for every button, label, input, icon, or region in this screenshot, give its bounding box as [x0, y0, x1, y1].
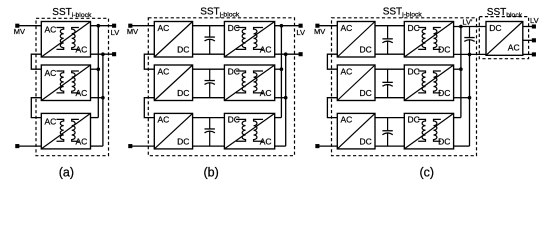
AC/DC rectifier b3 [154, 113, 192, 148]
svg-text:DC: DC [360, 88, 372, 98]
dashed boundary SST block (c inverter) [479, 17, 528, 59]
AC/DC rectifier c3 [337, 113, 375, 148]
terminal MV- (c) [315, 144, 319, 148]
wire b2 top output [275, 68, 282, 70]
bus LV+ vertical (b) [280, 26, 282, 118]
AC/AC converter a3 [41, 113, 90, 148]
wire c3 rectifier to dc-link top [375, 117, 404, 119]
capacitor dc-link c1 [382, 26, 392, 55]
svg-text:AC: AC [158, 23, 170, 33]
wire inverter phase 1 [523, 26, 534, 28]
label SST i-block (a) [52, 7, 92, 19]
svg-text:MV: MV [314, 27, 325, 36]
isolated DC/DC converter c1 [404, 22, 453, 58]
terminal MV+ (c) [315, 24, 319, 28]
terminal LV+ (a) [112, 24, 116, 28]
wire c3 rectifier to dc-link bottom [375, 145, 404, 147]
wire c2 bottom output [454, 97, 470, 99]
svg-text:AC: AC [341, 66, 353, 76]
transformer inside AC/AC converter a2 [57, 71, 79, 93]
svg-text:AC: AC [45, 24, 57, 34]
capacitor dc-link b3 [205, 118, 215, 147]
isolated DC/AC converter b2 [224, 65, 274, 101]
svg-text:MV: MV [127, 27, 138, 36]
transformer inside isolated DC/AC converter b3 [236, 119, 263, 141]
junction a2 bottom [101, 96, 105, 100]
isolated DC/AC converter b3 [224, 113, 274, 148]
terminal LV+ (b) [299, 24, 303, 28]
transformer inside isolated DC/DC converter c2 [418, 71, 441, 93]
wire b2 rectifier to dc-link bottom [193, 97, 225, 99]
wire MV- to c3 output [317, 145, 337, 147]
svg-text:DC: DC [408, 115, 420, 125]
AC/DC rectifier b1 [154, 22, 192, 58]
wire a1 bottom output to LV- [91, 53, 115, 55]
junction c2 top [459, 67, 463, 71]
terminal MV+ (b) [128, 24, 132, 28]
terminal LV phase 2 (c) [532, 38, 536, 42]
svg-text:SSTj-block: SSTj-block [200, 7, 240, 19]
bus LV+ vertical (a) [97, 26, 99, 118]
svg-text:(a): (a) [59, 165, 74, 179]
label MV (a) [14, 27, 25, 36]
wire inverter phase 2 [523, 39, 534, 41]
junction b2 top [280, 67, 284, 71]
svg-text:AC: AC [45, 116, 57, 126]
junction b1 bottom [284, 52, 288, 56]
terminal LV- (a) [112, 52, 116, 56]
label LV (c) [530, 16, 539, 25]
label LV (a) [111, 28, 120, 37]
svg-text:LV: LV [530, 16, 539, 25]
capacitor dc-link b2 [205, 69, 215, 98]
svg-text:DC: DC [177, 88, 189, 98]
wire series b2-b3 [144, 98, 154, 118]
capacitor LV' dc-link (c) [464, 27, 474, 55]
terminal MV- (a) [15, 144, 19, 148]
wire c1 rectifier to dc-link bottom [375, 53, 404, 55]
wire b1 bottom output to LV- [275, 53, 301, 55]
capacitor dc-link c2 [382, 69, 392, 98]
AC/DC rectifier b2 [154, 65, 192, 101]
terminal LV phase 3 (c) [532, 52, 536, 56]
wire series b1-b2 [144, 54, 154, 69]
AC/DC rectifier c1 [337, 22, 375, 58]
svg-text:DC: DC [360, 136, 372, 146]
wire a2 bottom output [91, 97, 103, 99]
svg-text:AC: AC [341, 115, 353, 125]
wire series c1-c2 [327, 54, 337, 69]
wire MV+ to a1 input [17, 25, 41, 27]
caption (b) [203, 165, 218, 179]
svg-text:DC: DC [408, 23, 420, 33]
isolated DC/DC converter c3 [404, 113, 453, 148]
junction b1 top [280, 24, 284, 28]
wire c1 bottom output to inverter [454, 53, 486, 55]
svg-text:AC: AC [158, 66, 170, 76]
bus LV' negative vertical (c) [469, 54, 471, 146]
svg-text:DC: DC [408, 66, 420, 76]
svg-text:DC: DC [489, 23, 501, 33]
wire inverter phase 3 [523, 53, 534, 55]
AC/DC rectifier c2 [337, 65, 375, 101]
wire MV+ to c1 input [317, 25, 337, 27]
isolated DC/DC converter c2 [404, 65, 453, 101]
wire c3 top output [454, 117, 461, 119]
junction a1 bottom [101, 52, 105, 56]
label MV (b) [127, 27, 138, 36]
terminal LV- (b) [299, 52, 303, 56]
label MV (c) [314, 27, 325, 36]
bus LV- vertical (a) [102, 54, 104, 146]
terminal MV- (b) [128, 144, 132, 148]
svg-text:SSTj-block: SSTj-block [383, 7, 423, 19]
wire series a2-a3 [31, 98, 41, 118]
label SST block (c inverter) [487, 7, 523, 19]
wire MV+ to b1 input [130, 25, 154, 27]
transformer inside isolated DC/DC converter c3 [418, 119, 441, 141]
junction c1 top [459, 25, 463, 29]
transformer inside isolated DC/AC converter b2 [236, 71, 263, 93]
bus LV' positive vertical (c) [460, 27, 462, 118]
dashed boundary SST i-block (a) [36, 18, 109, 155]
wire a1 top output to LV+ [91, 25, 115, 27]
transformer inside AC/AC converter a1 [57, 28, 79, 50]
svg-text:LV': LV' [462, 17, 473, 26]
svg-text:DC: DC [177, 136, 189, 146]
svg-text:MV: MV [14, 27, 25, 36]
svg-text:SSTblock: SSTblock [487, 7, 523, 19]
wire c2 rectifier to dc-link bottom [375, 97, 404, 99]
label SST j-block (b) [200, 7, 240, 19]
wire c2 rectifier to dc-link top [375, 68, 404, 70]
caption (a) [59, 165, 74, 179]
junction b2 bottom [284, 96, 288, 100]
wire b1 rectifier to dc-link bottom [193, 53, 225, 55]
wire b3 rectifier to dc-link bottom [193, 145, 225, 147]
svg-text:DC: DC [177, 44, 189, 54]
wire a3 top output [91, 117, 99, 119]
wire a3 bottom output [91, 145, 103, 147]
transformer inside AC/AC converter a3 [57, 119, 79, 141]
wire b1 top output to LV+ [275, 25, 301, 27]
wire b3 rectifier to dc-link top [193, 117, 225, 119]
svg-text:(b): (b) [203, 165, 218, 179]
svg-text:AC: AC [341, 23, 353, 33]
svg-text:LV: LV [296, 28, 305, 37]
svg-text:AC: AC [45, 68, 57, 78]
transformer inside isolated DC/DC converter c1 [418, 28, 441, 50]
junction a2 top [97, 67, 101, 71]
wire b3 top output [275, 117, 282, 119]
wire b2 rectifier to dc-link top [193, 68, 225, 70]
wire MV- to a3 output [17, 145, 41, 147]
wire a2 top output [91, 68, 99, 70]
dashed boundary SST j-block (c) [332, 18, 477, 156]
AC/AC converter a2 [41, 65, 90, 101]
junction c1 bottom [468, 53, 472, 57]
wire series a1-a2 [31, 54, 41, 69]
svg-text:DC: DC [360, 44, 372, 54]
wire series c2-c3 [327, 98, 337, 118]
wire b1 rectifier to dc-link top [193, 25, 225, 27]
label SST j-block (c) [383, 7, 423, 19]
caption (c) [420, 165, 435, 179]
dashed boundary SST j-block (b) [148, 18, 294, 156]
wire c2 top output [454, 68, 461, 70]
capacitor dc-link c3 [382, 118, 392, 147]
label LV (b) [296, 28, 305, 37]
wire c1 top output to inverter [454, 26, 486, 28]
isolated DC/AC converter b1 [224, 22, 274, 58]
capacitor dc-link b1 [205, 26, 215, 55]
wire c3 bottom output [454, 145, 470, 147]
wire b2 bottom output [275, 97, 286, 99]
wire b3 bottom output [275, 145, 286, 147]
terminal MV+ (a) [15, 24, 19, 28]
terminal LV phase 1 (c) [532, 24, 536, 28]
svg-text:(c): (c) [420, 165, 435, 179]
wire c1 rectifier to dc-link top [375, 25, 404, 27]
AC/AC converter a1 [41, 22, 90, 58]
junction a1 top [97, 24, 101, 28]
DC/AC inverter block (c) [486, 22, 523, 56]
wire MV- to b3 output [130, 145, 154, 147]
svg-text:AC: AC [158, 115, 170, 125]
transformer inside isolated DC/AC converter b1 [236, 28, 263, 50]
svg-text:SSTi-block: SSTi-block [52, 7, 92, 19]
junction c2 bottom [468, 96, 472, 100]
svg-text:LV: LV [111, 28, 120, 37]
bus LV- vertical (b) [285, 54, 287, 146]
label LV' (c) [462, 17, 473, 26]
svg-text:AC: AC [508, 43, 520, 53]
